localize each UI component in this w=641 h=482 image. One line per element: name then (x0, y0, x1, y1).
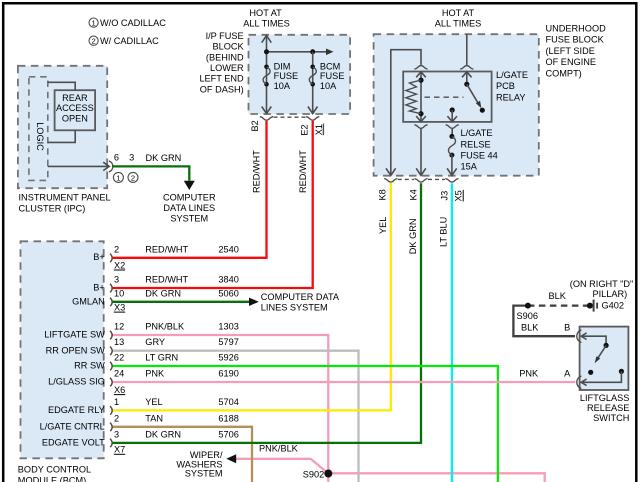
svg-text:EDGATE RLY: EDGATE RLY (48, 405, 105, 415)
svg-text:G402: G402 (602, 300, 624, 310)
svg-text:I/P FUSE: I/P FUSE (206, 31, 244, 41)
rear access open switch box U-IPC (55, 90, 96, 130)
svg-text:DIM: DIM (274, 62, 291, 72)
down arrow relay output (447, 116, 457, 122)
wire DK GRN 5060 row labels (72, 288, 239, 306)
down arrow K4 exit (416, 168, 426, 175)
wire DK GRN 5706 row labels (42, 429, 239, 447)
wire YEL 5704 row labels (48, 397, 239, 415)
svg-text:DK GRN: DK GRN (408, 218, 418, 254)
svg-text:BLOCK: BLOCK (213, 42, 245, 52)
arrow to wiper/washers system (226, 454, 236, 463)
wire RED/WHT 3840 (112, 121, 313, 288)
wire logic to switch top (48, 82, 75, 90)
svg-text:B2: B2 (250, 120, 260, 131)
wire PNK/BLK S902 right branch (328, 473, 544, 482)
arrow to computer data lines system (184, 181, 195, 190)
svg-text:6188: 6188 (218, 413, 238, 423)
splice S906 (525, 303, 531, 309)
svg-text:B+: B+ (93, 282, 105, 292)
wire BLK dashed S906 to G402 (528, 304, 590, 306)
circled 2 (128, 172, 138, 182)
svg-text:ALL TIMES: ALL TIMES (435, 18, 481, 28)
wire GRY 5797 row labels (46, 337, 239, 355)
switch common node (604, 343, 609, 348)
svg-text:A: A (564, 368, 571, 378)
connector cup coil bottom (414, 125, 427, 129)
svg-text:SYSTEM: SYSTEM (185, 469, 223, 479)
connector cup switch B (577, 330, 582, 343)
svg-text:10: 10 (114, 288, 124, 298)
svg-text:(ON RIGHT "D": (ON RIGHT "D" (570, 279, 634, 289)
legend note 1 W/O CADILLAC (89, 18, 166, 28)
svg-text:13: 13 (114, 337, 124, 347)
svg-text:S906: S906 (517, 311, 538, 321)
wire DK GRN 5706 (112, 183, 422, 443)
svg-text:1303: 1303 (218, 322, 238, 332)
wire TAN 6188 (112, 427, 253, 482)
splice S902 (324, 470, 332, 478)
wiper/washers system text (176, 450, 223, 479)
wire RED/WHT 2540 (112, 121, 267, 258)
svg-text:BCM: BCM (320, 62, 340, 72)
wire PNK/BLK 1303 to S902 (112, 335, 329, 482)
svg-text:E2: E2 (300, 124, 310, 135)
svg-text:FUSE BLOCK: FUSE BLOCK (546, 35, 605, 45)
l/gate relse fuse 44 15A (448, 128, 497, 171)
connector cup J3 (445, 179, 458, 183)
bus line with arrow (267, 51, 327, 53)
connector cup feed (460, 66, 473, 70)
svg-text:RELEASE: RELEASE (587, 403, 629, 413)
connector cup K8 (384, 179, 397, 183)
svg-text:DK GRN: DK GRN (146, 153, 182, 163)
wire DK GRN 5060 (112, 301, 250, 303)
wire YEL 5704 (112, 183, 391, 411)
svg-text:LOWER: LOWER (210, 63, 244, 73)
svg-text:5797: 5797 (218, 337, 238, 347)
liftglass release switch box (580, 327, 629, 390)
wire TAN 6188 row labels (40, 413, 239, 431)
IPC label (19, 192, 111, 213)
svg-text:12: 12 (114, 322, 124, 332)
svg-text:K8: K8 (377, 189, 387, 200)
switch contact node right (619, 369, 624, 374)
svg-text:X1: X1 (314, 124, 324, 135)
svg-text:FUSE: FUSE (274, 71, 299, 81)
switch arm with arrow (598, 345, 607, 358)
svg-text:3: 3 (114, 429, 119, 439)
DIM fuse 10A (263, 62, 298, 91)
on right D pillar note (570, 279, 634, 299)
svg-text:BLK: BLK (549, 291, 567, 301)
connector cup switch A (577, 376, 582, 389)
svg-text:COMPT): COMPT) (546, 68, 582, 78)
svg-text:RELSE: RELSE (461, 139, 491, 149)
svg-text:RED/WHT: RED/WHT (252, 150, 262, 193)
BCM fuse 10A (309, 62, 344, 91)
svg-text:RR SW: RR SW (74, 361, 105, 371)
svg-text:HOT AT: HOT AT (442, 8, 475, 18)
svg-text:B+: B+ (93, 252, 105, 262)
down arrow K8 exit (386, 168, 396, 175)
svg-text:FUSE: FUSE (320, 71, 345, 81)
svg-text:YEL: YEL (145, 397, 162, 407)
svg-text:COMPUTER DATA: COMPUTER DATA (261, 292, 340, 302)
wire PNK 6190 row labels (48, 369, 239, 387)
connector arrow switch A (581, 379, 587, 386)
svg-text:W/O CADILLAC: W/O CADILLAC (100, 18, 166, 28)
svg-text:OF DASH): OF DASH) (200, 84, 244, 94)
connector cup relay output (446, 125, 459, 129)
feed line from hot at to relay (466, 34, 468, 65)
svg-text:(BEHIND: (BEHIND (206, 52, 244, 62)
body control module (BCM) box (21, 241, 104, 458)
svg-text:1: 1 (114, 397, 119, 407)
connector arrow IPC output (103, 162, 109, 170)
down arrow exit B2 (262, 107, 272, 114)
wire PNK/BLK 1303 row labels (44, 322, 239, 340)
switch contact node left (588, 370, 593, 375)
svg-text:3840: 3840 (218, 275, 238, 285)
svg-text:W/ CADILLAC: W/ CADILLAC (100, 36, 159, 46)
wire PNK 6190 (112, 381, 576, 383)
svg-text:X7: X7 (114, 445, 125, 455)
svg-text:LINES SYSTEM: LINES SYSTEM (261, 303, 328, 313)
svg-text:1: 1 (116, 173, 120, 182)
svg-text:5926: 5926 (218, 353, 238, 363)
l/gate pcb relay box (403, 72, 491, 122)
svg-text:X6: X6 (114, 385, 125, 395)
svg-text:RELAY: RELAY (496, 92, 525, 102)
relay NO contact node (480, 108, 485, 113)
svg-text:BODY CONTROL: BODY CONTROL (18, 465, 91, 475)
svg-text:L/GATE: L/GATE (496, 70, 528, 80)
node bus-E2 (310, 49, 315, 54)
circled 1 (113, 172, 123, 182)
svg-text:2: 2 (131, 173, 135, 182)
relay output node (450, 107, 455, 112)
connector cup K4 (414, 179, 427, 183)
svg-text:X5: X5 (454, 190, 464, 201)
svg-text:CLUSTER (IPC): CLUSTER (IPC) (19, 204, 86, 214)
svg-text:LOGIC: LOGIC (35, 122, 45, 151)
svg-text:DK GRN: DK GRN (145, 429, 181, 439)
svg-text:PNK/BLK: PNK/BLK (259, 444, 299, 454)
svg-text:DATA LINES: DATA LINES (163, 203, 215, 213)
svg-text:EDGATE VOLT: EDGATE VOLT (42, 438, 105, 448)
connector X5 dashed bar K4-J3 (428, 178, 445, 180)
switch A internal line (581, 371, 621, 382)
svg-text:BLK: BLK (521, 323, 539, 333)
computer data lines system text (GMLAN) (261, 292, 340, 313)
logic module dashed box (29, 77, 48, 181)
svg-text:RED/WHT: RED/WHT (145, 275, 188, 285)
svg-text:(LEFT SIDE: (LEFT SIDE (546, 46, 595, 56)
svg-text:COMPUTER: COMPUTER (163, 193, 216, 203)
svg-text:6190: 6190 (218, 369, 238, 379)
svg-text:2: 2 (114, 413, 119, 423)
svg-text:ACCESS: ACCESS (56, 103, 94, 113)
svg-text:ALL TIMES: ALL TIMES (243, 18, 289, 28)
relay coil top to K8 wire (391, 50, 421, 175)
svg-text:HOT AT: HOT AT (249, 8, 282, 18)
relay label (496, 70, 528, 102)
svg-text:LT GRN: LT GRN (145, 353, 178, 363)
svg-text:PILLAR): PILLAR) (592, 289, 627, 299)
svg-text:3: 3 (114, 275, 119, 285)
hot at all times (right) (435, 8, 481, 28)
connector arrow switch B (581, 333, 587, 340)
svg-text:PNK: PNK (519, 368, 539, 378)
wire logic output (48, 165, 105, 167)
svg-text:UNDERHOOD: UNDERHOOD (546, 24, 607, 34)
svg-text:L/GLASS SIG: L/GLASS SIG (48, 377, 105, 387)
svg-text:MODULE (BCM): MODULE (BCM) (18, 476, 86, 482)
relay switch arm (467, 84, 479, 104)
svg-text:PNK/BLK: PNK/BLK (145, 322, 185, 332)
computer data lines system text (163, 193, 216, 224)
svg-text:2540: 2540 (218, 244, 238, 254)
wire LT GRN 5926 (112, 366, 498, 482)
connector cup E2 (306, 117, 319, 121)
svg-text:GMLAN: GMLAN (72, 297, 105, 307)
svg-text:X3: X3 (114, 302, 125, 312)
svg-text:OF ENGINE: OF ENGINE (546, 57, 597, 67)
coil resistor zigzag (406, 80, 421, 114)
connector cup B2 (260, 117, 273, 121)
down arrow coil bottom (416, 116, 426, 122)
svg-text:SWITCH: SWITCH (593, 413, 629, 423)
down arrow exit E2 (308, 107, 318, 114)
svg-text:S902: S902 (303, 469, 324, 479)
wire LT BLU (451, 183, 453, 482)
svg-text:B: B (564, 323, 570, 333)
liftglass release switch label (580, 393, 630, 423)
wire RED/WHT 3840 row labels (93, 275, 239, 293)
coil bottom line to K4 (420, 129, 422, 176)
svg-text:SYSTEM: SYSTEM (170, 214, 208, 224)
svg-text:LIFTGLASS: LIFTGLASS (580, 393, 630, 403)
E2 vertical line (312, 52, 314, 114)
feed line B2 vertical (266, 35, 268, 113)
up arrow coil top (416, 72, 426, 78)
wire RED/WHT 2540 row labels (93, 244, 239, 262)
svg-text:6: 6 (114, 152, 119, 162)
I/P fuse block label (199, 31, 244, 95)
svg-text:5060: 5060 (218, 288, 238, 298)
relay coil line (420, 72, 422, 122)
node bus-B2 (264, 49, 269, 54)
svg-text:2: 2 (91, 37, 95, 46)
wire LT GRN 5926 row labels (74, 353, 239, 371)
connector cup coil top (414, 66, 427, 70)
svg-text:PNK: PNK (145, 369, 165, 379)
instrument panel cluster (IPC) box (18, 66, 107, 188)
relay output line down (451, 110, 453, 122)
svg-text:RR OPEN SW: RR OPEN SW (46, 345, 106, 355)
connector X5 dashed bar K8-K4 (398, 178, 414, 180)
svg-text:PCB: PCB (496, 81, 515, 91)
svg-text:2: 2 (114, 244, 119, 254)
svg-text:RED/WHT: RED/WHT (145, 244, 188, 254)
svg-text:5706: 5706 (218, 429, 238, 439)
down arrow J3 exit (447, 168, 457, 175)
wire DK GRN IPC to computer data lines (112, 166, 189, 180)
svg-text:OPEN: OPEN (62, 113, 88, 123)
connector X1 dashed bar (274, 116, 306, 118)
underhood fuse block label (546, 24, 607, 79)
svg-text:X2: X2 (114, 260, 125, 270)
svg-text:REAR: REAR (62, 93, 88, 103)
fuse 44 line from relay (451, 129, 453, 135)
wire BLK S906 to switch B (513, 306, 575, 337)
svg-text:INSTRUMENT PANEL: INSTRUMENT PANEL (19, 192, 111, 202)
up arrow feed into relay (462, 72, 472, 85)
svg-text:TAN: TAN (145, 413, 163, 423)
svg-text:5704: 5704 (218, 397, 238, 407)
svg-text:10A: 10A (274, 81, 291, 91)
svg-text:L/GATE CNTRL: L/GATE CNTRL (40, 422, 105, 432)
svg-text:10A: 10A (320, 81, 337, 91)
relay switch pivot node (464, 82, 469, 87)
arrow to computer data lines (GMLAN) (249, 298, 259, 306)
I/P fuse block box (249, 35, 351, 114)
legend note 2 W/ CADILLAC (89, 36, 159, 46)
hot at all times (left) (243, 8, 289, 28)
fuse 44 line down to J3 (451, 155, 453, 175)
svg-text:YEL: YEL (378, 217, 388, 234)
svg-text:LEFT END: LEFT END (199, 74, 244, 84)
switch B internal line (581, 336, 606, 345)
ground G402 (594, 300, 624, 312)
wire PNK/BLK S902 to wiper/washers (236, 459, 328, 474)
svg-text:3: 3 (129, 152, 134, 162)
connector cup IPC output (109, 161, 113, 172)
wire GRY 5797 (112, 351, 359, 482)
svg-text:RED/WHT: RED/WHT (298, 150, 308, 193)
coil bottom node (418, 111, 423, 116)
BCM label (18, 465, 91, 482)
svg-text:15A: 15A (461, 162, 478, 172)
svg-text:K4: K4 (408, 189, 418, 200)
svg-text:J3: J3 (440, 191, 450, 201)
node at G402 (587, 303, 593, 309)
relay linkage dashed (425, 96, 464, 98)
svg-text:LT BLU: LT BLU (439, 217, 449, 247)
coil top node (418, 78, 423, 83)
svg-text:DK GRN: DK GRN (145, 288, 181, 298)
svg-text:22: 22 (114, 353, 124, 363)
svg-text:1: 1 (91, 19, 95, 28)
up arrow to hot at all times (262, 35, 272, 42)
svg-text:LIFTGATE SW: LIFTGATE SW (44, 330, 105, 340)
svg-text:24: 24 (114, 369, 124, 379)
underhood fuse block box (374, 34, 539, 176)
svg-text:GRY: GRY (145, 337, 165, 347)
svg-text:FUSE 44: FUSE 44 (461, 150, 498, 160)
wire switch bottom to logic (48, 130, 75, 142)
svg-text:L/GATE: L/GATE (461, 128, 493, 138)
